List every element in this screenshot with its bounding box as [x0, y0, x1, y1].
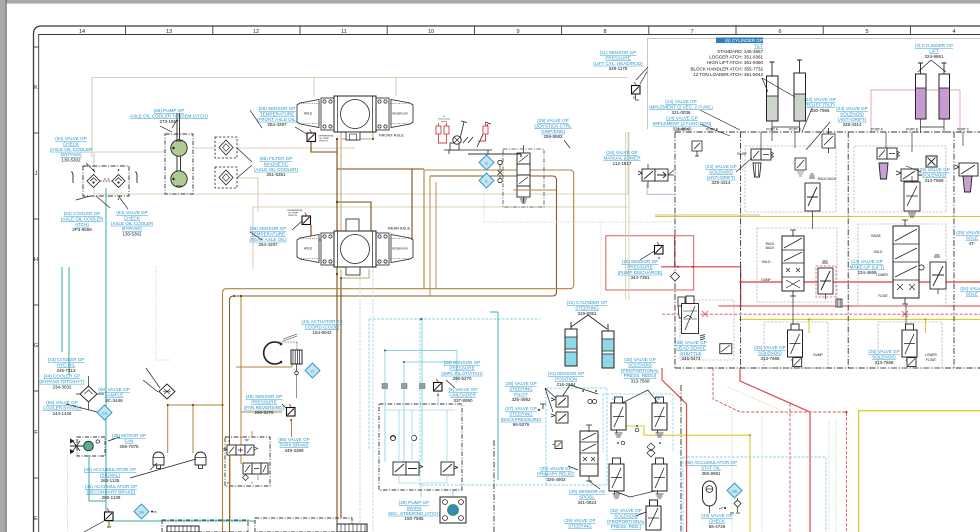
svg-text:SOLENOID: SOLENOID [628, 362, 652, 367]
svg-text:C: C [228, 439, 230, 443]
svg-text:326-4902: 326-4902 [546, 477, 566, 482]
label 6 cylinder tilt [691, 38, 764, 77]
svg-text:6: 6 [778, 29, 781, 35]
wire bluedash implement pilot net [369, 319, 422, 450]
svg-text:9: 9 [516, 29, 519, 35]
motor gp fan [70, 437, 120, 456]
accumulator gp stat oil [703, 481, 717, 513]
svg-text:264-4297: 264-4297 [258, 242, 278, 247]
svg-text:control: control [441, 120, 448, 123]
valve gp solenoid anti-drift section1 [751, 149, 774, 160]
svg-text:GB: GB [732, 490, 738, 494]
accumulator gp signal [153, 452, 164, 469]
svg-text:319-5051: 319-5051 [577, 311, 597, 316]
pump gp sec steering [440, 497, 466, 523]
park brake valve B [243, 463, 268, 474]
brake valve dashed box bottom [162, 520, 248, 532]
svg-text:PRESS. RED.): PRESS. RED.) [611, 524, 642, 529]
label 25 right edge [956, 230, 980, 246]
svg-text:(39) PUMP GP: (39) PUMP GP [399, 500, 430, 505]
svg-text:326-4982: 326-4982 [511, 397, 531, 402]
svg-text:RACK BACK: RACK BACK [818, 177, 837, 181]
solenoid valve 25 lower [902, 324, 917, 364]
valve position labels [737, 152, 937, 362]
wire brown front axle feed [311, 139, 424, 524]
svg-text:4: 4 [952, 29, 955, 35]
svg-text:(64) VALVE GP: (64) VALVE GP [55, 136, 87, 141]
label 16 manual lower [603, 150, 641, 166]
svg-text:(AXLE OIL COOLER): (AXLE OIL COOLER) [254, 167, 298, 172]
svg-text:FLOAT: FLOAT [926, 358, 936, 362]
svg-text:154-9042: 154-9042 [312, 330, 332, 335]
steering main spool [580, 425, 598, 481]
brake pressure sensor bottom left [105, 509, 114, 521]
svg-text:(32) VALVE GP: (32) VALVE GP [610, 508, 642, 513]
svg-text:(AXLE OIL COOLER: (AXLE OIL COOLER [50, 147, 93, 152]
svg-text:(43) COOLER GP: (43) COOLER GP [48, 357, 85, 362]
label 14 valve 2vec [649, 99, 713, 115]
svg-text:(33) VALVE GP: (33) VALVE GP [701, 513, 733, 518]
svg-text:POSITION: POSITION [555, 376, 577, 381]
label 24 antidrift mid [705, 164, 737, 185]
pump gp axle oil cooler tandem [165, 113, 193, 194]
tan valve return segment [513, 189, 556, 191]
cylinder gp steering left [565, 322, 577, 366]
lift label leaders [918, 60, 946, 72]
filter gp magnetic lower [215, 167, 237, 188]
label 13 make-up [850, 259, 885, 275]
pilot valve section3 lower [904, 176, 920, 217]
svg-text:273-1867: 273-1867 [159, 119, 179, 124]
svg-text:SOLENOID: SOLENOID [614, 513, 638, 518]
label 29 joystick [534, 118, 572, 139]
svg-text:234-4869: 234-4869 [857, 270, 877, 275]
svg-text:(59) SENSOR GP: (59) SENSOR GP [259, 106, 296, 111]
double diamond symbol [647, 443, 655, 457]
pilot valve small section1 [795, 158, 806, 176]
svg-text:HIGH LIFT ATCH: 351-9360: HIGH LIFT ATCH: 351-9360 [707, 60, 764, 65]
label 55 cooler bypass valve [43, 400, 82, 416]
label 31 sensor position [548, 371, 585, 387]
svg-text:(58) VALVE GP: (58) VALVE GP [98, 387, 130, 392]
label 25 solenoid top right [918, 167, 950, 183]
svg-text:(5) VALVE GP: (5) VALVE GP [449, 387, 478, 392]
wire olive over yellow [655, 214, 760, 216]
rack back pilot valve [805, 174, 820, 216]
svg-text:(38) ACCUMULATOR GP: (38) ACCUMULATOR GP [685, 460, 737, 465]
sensor gp pressure lift cyl [632, 82, 641, 94]
svg-text:SEC. STEERING (ATCH): SEC. STEERING (ATCH) [388, 511, 440, 516]
valve gp solenoid section2 top [877, 148, 900, 159]
label 43 cooler [48, 357, 85, 373]
svg-text:LIFT: LIFT [929, 48, 939, 53]
bluedash prop valve cluster [603, 394, 673, 452]
svg-text:(30) SENSOR AS: (30) SENSOR AS [569, 489, 605, 494]
label 44 cooler bypass [39, 374, 85, 390]
node C blue diamond [479, 173, 494, 188]
main spool valve hold-dump [782, 230, 804, 296]
svg-text:(11) SENSOR GP: (11) SENSOR GP [600, 50, 636, 55]
tilt label leaders [762, 78, 800, 132]
front axle temp sensor [295, 127, 335, 143]
label 36 load sense [675, 340, 707, 361]
svg-text:FRONT AXLE: FRONT AXLE [379, 133, 404, 138]
svg-text:RR: RR [656, 397, 661, 401]
svg-text:(28) VALVE GP: (28) VALVE GP [505, 381, 537, 386]
park brake valve box [225, 437, 270, 486]
svg-text:66-5276: 66-5276 [513, 422, 530, 427]
svg-text:BYPASS): BYPASS) [122, 226, 142, 231]
wire bluedash steering box [420, 319, 607, 485]
label 33 valve check [701, 513, 733, 529]
svg-text:SOLE: SOLE [966, 235, 978, 240]
double circle fitting steering [588, 399, 592, 403]
svg-text:355-9981: 355-9981 [701, 471, 721, 476]
valve gp joystick ctrl dashed box [503, 149, 544, 207]
svg-text:(25) VALVE GP: (25) VALVE GP [956, 230, 980, 235]
label 38 accumulator stat [685, 460, 737, 476]
svg-text:SWITCH: SWITCH [319, 141, 328, 143]
label 56 park brake [278, 437, 310, 453]
svg-text:(31) SENSOR GP: (31) SENSOR GP [548, 371, 585, 376]
wire red bottom dashed C [713, 368, 846, 532]
svg-text:FLOAT: FLOAT [878, 294, 888, 298]
svg-text:8: 8 [603, 29, 606, 35]
wire red bottom solid A [662, 368, 687, 532]
svg-text:PORT A: PORT A [677, 128, 689, 132]
svg-text:(24) VALVE: (24) VALVE [960, 286, 980, 291]
wire tan park brake vertical pair [241, 296, 282, 464]
wire tan steering supply box A [223, 170, 574, 532]
svg-text:B: B [633, 96, 635, 100]
svg-text:T: T [251, 481, 253, 485]
svg-text:HYD OIL: HYD OIL [57, 362, 76, 367]
position sensor leaders [545, 385, 598, 412]
wire bluedash accumulator box [683, 457, 826, 532]
svg-text:LOAD SENSE: LOAD SENSE [676, 345, 705, 350]
label 28 steering pilot [505, 381, 537, 402]
svg-text:(14) VALVE GP: (14) VALVE GP [666, 116, 698, 121]
actuator as coord C arc [264, 342, 281, 364]
svg-text:CS: CS [102, 412, 108, 416]
svg-text:12: 12 [253, 29, 259, 35]
joystick red pins [436, 123, 488, 143]
accumulator leader line [130, 459, 196, 478]
cooler bypass check diamond [80, 386, 97, 402]
svg-text:LOWER: LOWER [876, 273, 888, 277]
joystick valve stack [517, 145, 530, 203]
svg-text:PORT A: PORT A [871, 128, 883, 132]
svg-text:RAISE: RAISE [737, 152, 747, 156]
svg-text:(LIFT CYL. HEAD/ROD): (LIFT CYL. HEAD/ROD) [593, 61, 643, 66]
joystick to valve link [468, 154, 521, 157]
svg-text:STAT OIL: STAT OIL [701, 465, 721, 470]
svg-text:H: H [34, 257, 38, 263]
svg-text:LOGGER ATCH: 351-9361: LOGGER ATCH: 351-9361 [709, 55, 763, 60]
wire yellow big box corner [859, 411, 980, 532]
svg-text:(59) SENSOR GP: (59) SENSOR GP [250, 226, 287, 231]
svg-text:(FAN REVERSING): (FAN REVERSING) [244, 405, 285, 410]
svg-text:SOLENOID: SOLENOID [758, 350, 782, 355]
svg-text:J: J [35, 171, 38, 177]
relief sensor small box [555, 441, 562, 449]
svg-text:(66) PUMP GP: (66) PUMP GP [154, 108, 185, 113]
svg-text:(BYPASS TDTO/HYT): (BYPASS TDTO/HYT) [39, 379, 85, 384]
svg-text:TILT: TILT [754, 44, 763, 49]
node GB blue diamond [727, 483, 742, 498]
svg-text:IMPLEMENT (2 VEC, 2 FUNC): IMPLEMENT (2 VEC, 2 FUNC) [649, 104, 713, 109]
check valve below GB [734, 500, 741, 507]
svg-text:(55) VALVE GP: (55) VALVE GP [46, 400, 78, 405]
prop valve 2 [652, 397, 667, 437]
T sensor mark [540, 404, 546, 409]
svg-text:346-0474: 346-0474 [681, 356, 701, 361]
svg-text:(BYPASS): (BYPASS) [60, 152, 82, 157]
teal steering pilot line [490, 312, 498, 480]
svg-text:4T-: 4T- [969, 241, 976, 246]
svg-text:DUMP: DUMP [813, 353, 822, 357]
wire yellow steering LS [626, 426, 750, 532]
primary relief leader [568, 466, 578, 470]
svg-text:G: G [34, 343, 38, 349]
svg-text:330-7965: 330-7965 [810, 108, 830, 113]
label 14 valve 3func [653, 116, 712, 132]
label 29 steering bottom [564, 518, 596, 528]
svg-text:(14) VALVE GP: (14) VALVE GP [665, 99, 697, 104]
svg-text:MANUAL LOWER: MANUAL LOWER [603, 155, 641, 160]
svg-text:(6) CYLINDER GP: (6) CYLINDER GP [725, 38, 763, 43]
svg-text:C: C [485, 179, 488, 184]
wire tan joystick drop [430, 176, 436, 296]
svg-text:COOLER BYPASS: COOLER BYPASS [43, 405, 82, 410]
wire brown rear axle feed [311, 202, 371, 518]
label 48 sensor fan rev [244, 394, 285, 415]
svg-text:PRESSURE: PRESSURE [251, 399, 276, 404]
leader lines implement [636, 67, 921, 172]
svg-text:STEERING: STEERING [568, 523, 592, 528]
svg-text:K: K [34, 85, 38, 91]
svg-text:STANDARD: 345-3867: STANDARD: 345-3867 [717, 49, 763, 54]
left gray band [0, 0, 7, 532]
label 42 actuator [301, 319, 342, 335]
wire red solid pilot run [719, 305, 980, 307]
check circles near diamonds [498, 160, 502, 164]
wire red dashed pilot long [662, 313, 980, 315]
implement shutoff sensor [434, 379, 443, 391]
svg-text:CHECK: CHECK [709, 518, 726, 523]
wire tan steering supply box B [230, 176, 557, 532]
svg-text:130-5302: 130-5302 [61, 158, 81, 163]
valve gp manual lower [638, 164, 674, 188]
node B blue diamond [479, 155, 494, 170]
svg-text:313-7668: 313-7668 [760, 356, 780, 361]
raise-lower main spool [893, 220, 919, 304]
svg-text:RAISE: RAISE [871, 234, 881, 238]
node D blue diamond [305, 363, 320, 378]
svg-text:(ANTI-DRIFT): (ANTI-DRIFT) [707, 175, 736, 180]
svg-text:(13) VALVE GP: (13) VALVE GP [851, 259, 883, 264]
anti drift cone mid [678, 297, 685, 318]
svg-text:(35) VALVE GP: (35) VALVE GP [624, 357, 656, 362]
wire khaki rear axle U [341, 269, 369, 278]
svg-text:11: 11 [341, 29, 347, 35]
small grid symbol section1 [836, 299, 842, 307]
pump dashed box bottom center [255, 518, 352, 532]
svg-text:(MAIN): (MAIN) [407, 505, 422, 510]
label 34 sensor impl [441, 360, 483, 381]
label 11 sensor [593, 50, 643, 71]
sensor gp fan reversing [287, 404, 296, 416]
svg-text:PRESSURE: PRESSURE [605, 55, 630, 60]
prop valve 1 [611, 397, 626, 437]
label 65 filter gp [254, 156, 298, 177]
svg-text:14: 14 [79, 29, 85, 35]
heavy dashdot steering box edges [494, 385, 681, 532]
label 25 solenoid lower [868, 349, 900, 365]
svg-text:(41) ACCUMULATOR GP: (41) ACCUMULATOR GP [85, 484, 137, 489]
wire gray dotted horizontals [156, 188, 675, 360]
svg-text:5: 5 [865, 29, 868, 35]
svg-text:(65) FILTER GP: (65) FILTER GP [260, 156, 293, 161]
svg-text:313-7668: 313-7668 [874, 360, 894, 365]
valve gp check axle oil cooler box [72, 166, 138, 200]
svg-text:(42) ACTUATOR AS: (42) ACTUATOR AS [301, 319, 342, 324]
hyd cooler diamond [159, 384, 175, 399]
companion valve red dashed [818, 261, 833, 299]
svg-text:(24) VALVE GP: (24) VALVE GP [705, 164, 737, 169]
cylinder gp tilt right [794, 60, 806, 121]
svg-text:(26) VALVE GP: (26) VALVE GP [540, 466, 572, 471]
svg-text:328-4314: 328-4314 [842, 122, 862, 127]
svg-text:STEERING: STEERING [509, 411, 533, 416]
svg-text:RELIEF (TILT): RELIEF (TILT) [805, 102, 835, 107]
pilot shutoff valve A [393, 462, 423, 475]
wire tan actuator link [236, 351, 292, 367]
svg-text:STEERING: STEERING [575, 305, 599, 310]
port labels [677, 128, 969, 132]
pilot shutoff blue links [385, 410, 455, 490]
svg-text:13: 13 [166, 29, 172, 35]
make-up valve far right purple [955, 163, 978, 192]
label 21 cylinder steering [567, 300, 608, 316]
joystick pump circle [453, 136, 461, 144]
spool sensor leader [589, 481, 600, 489]
svg-text:PORT B: PORT B [706, 128, 718, 132]
svg-text:324-9861: 324-9861 [924, 54, 944, 59]
junction dots [167, 138, 374, 406]
label 64 valve check upper [50, 136, 93, 163]
svg-text:PORT C: PORT C [957, 128, 970, 132]
check diamond on box edge [671, 272, 680, 281]
svg-text:CHECK: CHECK [63, 141, 80, 146]
svg-text:344-7391: 344-7391 [630, 275, 650, 280]
leader lines labels left [86, 110, 570, 240]
svg-text:313-7668: 313-7668 [924, 178, 944, 183]
svg-text:259-7075: 259-7075 [119, 444, 139, 449]
check circle section2 [919, 265, 924, 270]
wire pink lift cyl box [871, 90, 960, 133]
sensor gp pressure pump discharge [655, 242, 664, 254]
blue diamond SB [134, 504, 149, 519]
svg-text:(27) VALVE GP: (27) VALVE GP [505, 406, 537, 411]
implement valve gray sub boxes [680, 146, 946, 368]
svg-text:328-4314: 328-4314 [711, 180, 731, 185]
svg-text:(56) VALVE GP: (56) VALVE GP [278, 437, 310, 442]
svg-text:P: P [227, 481, 229, 485]
prop valve leaders [614, 390, 658, 516]
red line X fittings [702, 311, 908, 317]
steering pilot valve A [551, 396, 568, 407]
svg-text:B: B [485, 161, 488, 166]
cylinder gp lift left [916, 63, 927, 119]
lift cylinder port stubs [921, 119, 945, 133]
wire khaki front axle U [341, 131, 373, 139]
svg-text:(24) VALVE GP: (24) VALVE GP [836, 106, 868, 111]
wire red LS solid top [661, 236, 980, 305]
label 5 unloader [449, 387, 478, 403]
wire pale-olive axle area [237, 148, 355, 212]
svg-text:DUMP: DUMP [761, 278, 770, 282]
wire lightblue solid implement pilot [385, 319, 457, 462]
prop valve 4 [652, 458, 667, 498]
steering junction dots [582, 390, 661, 444]
sample valve blue diamond [97, 405, 112, 420]
svg-text:251-6351: 251-6351 [266, 172, 286, 177]
wire orange axle cooler drop [62, 188, 255, 521]
wire teal-dash long verticals [360, 266, 373, 532]
svg-text:(SIGNAL): (SIGNAL) [100, 472, 120, 477]
svg-text:(29) VALVE GP: (29) VALVE GP [537, 118, 569, 123]
svg-text:ATCH): ATCH) [75, 222, 89, 227]
svg-text:STEERING: STEERING [509, 386, 533, 391]
svg-text:(36) VALVE GP: (36) VALVE GP [675, 340, 707, 345]
rear axle temp sensor [287, 209, 310, 230]
svg-text:HOLD: HOLD [762, 260, 772, 264]
wire tan accumulator feeds [168, 405, 223, 453]
svg-text:FAN: FAN [125, 438, 134, 443]
wire gray dotted verticals [68, 222, 795, 532]
joystick control levers [444, 121, 492, 154]
svg-text:BACK: BACK [766, 246, 776, 250]
svg-text:259-9583: 259-9583 [543, 134, 563, 139]
pale tank return pair [626, 132, 630, 300]
svg-text:SHUTTLE: SHUTTLE [681, 351, 702, 356]
gray dotted pair bottom right [829, 420, 836, 532]
svg-text:(PROPORTIONAL: (PROPORTIONAL [621, 368, 659, 373]
svg-text:130-5302: 130-5302 [122, 232, 142, 237]
X box symbol section2 [926, 156, 937, 167]
label 63 cooler gp [61, 211, 104, 232]
label 23 relief [804, 97, 836, 113]
filter gp magnetic upper [215, 137, 237, 158]
svg-text:112-1817: 112-1817 [613, 161, 632, 166]
actuator cylinder [291, 350, 302, 364]
svg-text:(REAR AXLE OIL): (REAR AXLE OIL) [249, 237, 287, 242]
svg-text:12 TON LOADER ATCH: 361-5042: 12 TON LOADER ATCH: 361-5042 [693, 72, 763, 77]
svg-text:349-4389: 349-4389 [284, 448, 304, 453]
solenoid cone section1 [753, 163, 761, 177]
park brake check diamond [243, 475, 249, 481]
svg-text:65-4726: 65-4726 [709, 524, 726, 529]
svg-text:PORT B: PORT B [906, 128, 918, 132]
svg-text:(48) SENSOR GP: (48) SENSOR GP [246, 394, 283, 399]
svg-text:SB: SB [139, 511, 144, 515]
svg-text:E: E [34, 516, 38, 522]
wire yellow main LS line [655, 216, 980, 218]
svg-text:REAR AXLE: REAR AXLE [388, 226, 411, 231]
wire bluedash risers [421, 490, 453, 497]
svg-text:150-7585: 150-7585 [404, 516, 424, 521]
